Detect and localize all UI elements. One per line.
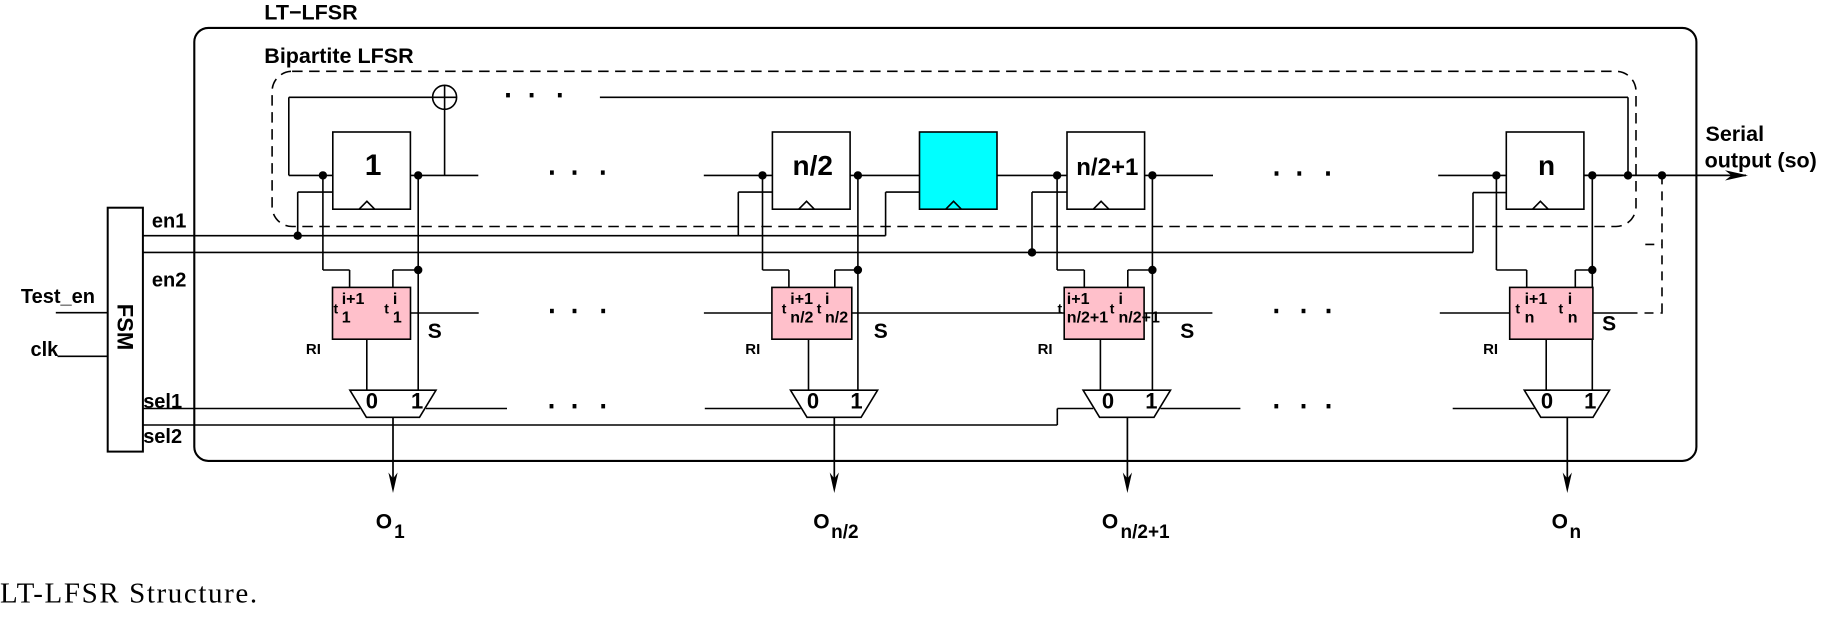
wire S-row segment col4 (1440, 312, 1510, 314)
XOR gate vertical input from FF1 output (444, 85, 446, 175)
svg-text:1: 1 (365, 149, 382, 182)
svg-text:FSM: FSM (113, 304, 138, 350)
junction col1 data output tap (414, 171, 422, 179)
svg-text:S: S (1602, 313, 1616, 336)
cyan hold cell box (920, 132, 998, 209)
junction col1 output riser at jog level (414, 266, 422, 274)
wire FF1 enable stub (298, 191, 333, 193)
svg-text:n: n (1570, 522, 1582, 543)
wire top feedback right drop to serial line (1627, 97, 1629, 175)
ellipsis data row left (550, 170, 554, 174)
svg-text:0: 0 (1102, 388, 1114, 413)
flip-flop n/2+1 box (1067, 132, 1145, 209)
RI cell tn/2+1 box (1064, 287, 1144, 339)
wire col3 FF-output riser to MUX 1-input (1151, 175, 1153, 390)
wire sel1 resume to MUX2 (705, 408, 801, 410)
wire sel2 resume to MUX4 (1453, 408, 1535, 410)
svg-text:0: 0 (807, 388, 819, 413)
wire col3 FF-input tap riser (1056, 175, 1058, 270)
wire clk input (58, 355, 108, 357)
junction col3 output riser at jog level (1148, 266, 1156, 274)
svg-text:en2: en2 (152, 269, 186, 291)
svg-text:1: 1 (393, 309, 402, 326)
wire cyan cell enable stub (886, 191, 920, 193)
junction dashed-feedback at serial line (1658, 171, 1666, 179)
junction col3 data input tap (1053, 171, 1061, 179)
svg-text:n: n (1525, 309, 1535, 326)
junction top-feedback at serial line (1624, 171, 1632, 179)
MUX col2 trapezoid (791, 390, 878, 417)
serial output arrowhead (1725, 170, 1748, 180)
wire left feedback vertical (288, 97, 290, 175)
junction col4 data input tap (1492, 171, 1500, 179)
svg-text:sel1: sel1 (143, 391, 182, 413)
svg-text:1: 1 (1145, 388, 1157, 413)
wire col4 RI-cell output to MUX 0-input (1545, 339, 1547, 390)
svg-text:RI: RI (1038, 341, 1053, 358)
wire FF n enable riser (1472, 193, 1474, 253)
wire col1 t(i+1) input jog (323, 269, 350, 271)
wire col4 t(i+1) input drop (1526, 270, 1528, 287)
svg-text:0: 0 (366, 388, 378, 413)
wire sel1 MUX1 to gap (426, 408, 507, 410)
Bipartite LFSR dashed enclosure (272, 71, 1636, 226)
svg-text:t: t (817, 300, 822, 316)
svg-text:i+1: i+1 (1067, 291, 1090, 308)
junction col3 data output tap (1148, 171, 1156, 179)
RI cell t1 box (333, 287, 411, 339)
svg-text:S: S (874, 320, 888, 343)
wire col1 t(i) input drop (392, 270, 394, 287)
dashed feedback vertical from serial output (1661, 175, 1663, 313)
svg-text:LT−LFSR: LT−LFSR (264, 1, 358, 25)
wire col1 FF-output riser to MUX 1-input (417, 175, 419, 390)
svg-text:n/2: n/2 (825, 309, 848, 326)
wire FF n input (1438, 174, 1506, 176)
svg-text:i+1: i+1 (1525, 291, 1548, 308)
svg-text:n/2+1: n/2+1 (1119, 309, 1160, 326)
svg-text:en1: en1 (152, 211, 186, 233)
MUX col1 output arrowhead (388, 473, 397, 494)
flip-flop n box (1506, 132, 1584, 209)
MUX col2 output arrowhead (830, 473, 839, 494)
wire col4 t(i+1) input jog (1496, 269, 1526, 271)
wire FF n/2 input (704, 174, 773, 176)
svg-text:i+1: i+1 (342, 291, 365, 308)
svg-text:n/2+1: n/2+1 (1067, 309, 1108, 326)
wire col4 t(i) input jog (1575, 269, 1592, 271)
wire col3 t(i+1) input drop (1083, 270, 1085, 287)
wire col4 t(i) input drop (1574, 270, 1576, 287)
junction col4 output riser at jog level (1588, 266, 1596, 274)
wire sel2 MUX3 exit (1160, 408, 1240, 410)
svg-text:RI: RI (306, 341, 321, 358)
wire col3 RI-cell output to MUX 0-input (1099, 339, 1101, 390)
wire MUX col4 output (1566, 417, 1568, 480)
wire col1 FF-input tap riser (322, 175, 324, 270)
wire en2 line (143, 251, 1473, 253)
wire FF n/2 output to cyan cell (850, 174, 919, 176)
svg-text:S: S (428, 320, 442, 343)
wire col2 t(i+1) input jog (763, 269, 789, 271)
wire FF1 enable riser (297, 192, 299, 236)
wire col2 t(i) input drop (834, 270, 836, 287)
junction col1 data input tap (319, 171, 327, 179)
svg-text:n/2+1: n/2+1 (1076, 154, 1138, 181)
svg-text:1: 1 (342, 309, 351, 326)
wire sel2 to MUX3 (1057, 408, 1093, 410)
RI cell tn box (1510, 287, 1593, 339)
wire cyan cell output to FF n/2+1 (997, 174, 1067, 176)
svg-text:n/2+1: n/2+1 (1121, 522, 1171, 543)
wire top feedback left segment (289, 96, 457, 98)
flip-flop n clock triangle (1533, 201, 1549, 209)
wire col1 RI-cell output to MUX 0-input (366, 339, 368, 390)
svg-text:i: i (393, 291, 397, 308)
RI cell tn/2 box (772, 287, 852, 339)
wire FF1 input (289, 174, 333, 176)
wire col3 t(i) input drop (1127, 270, 1129, 287)
svg-text:t: t (782, 300, 787, 316)
svg-text:n/2: n/2 (790, 309, 813, 326)
wire sel2 jog up (1056, 409, 1058, 426)
svg-text:Serial: Serial (1706, 122, 1765, 146)
wire col1 t(i+1) input drop (349, 270, 351, 287)
wire col3 t(i+1) input jog (1057, 269, 1084, 271)
svg-text:i: i (825, 291, 829, 308)
svg-text:t: t (334, 300, 339, 316)
wire en1 line (143, 235, 886, 237)
wire col4 FF-input tap riser (1495, 175, 1497, 270)
ellipsis mux row right (1274, 404, 1278, 408)
svg-text:RI: RI (1483, 341, 1498, 358)
wire col2 FF-input tap riser (762, 175, 764, 270)
svg-text:n/2: n/2 (831, 522, 858, 543)
svg-text:O: O (1102, 510, 1118, 533)
MUX col4 trapezoid (1524, 390, 1609, 417)
ellipsis top row (506, 93, 510, 97)
svg-text:t: t (1110, 300, 1115, 316)
MUX col1 trapezoid (350, 390, 436, 417)
wire col2 t(i+1) input drop (788, 270, 790, 287)
wire FF n/2 enable riser (737, 192, 739, 236)
junction col4 data output tap (1588, 171, 1596, 179)
wire col4 FF-output riser to MUX 1-input (1591, 175, 1593, 390)
wire MUX col2 output (833, 417, 835, 480)
svg-text:n: n (1568, 309, 1578, 326)
svg-text:i+1: i+1 (790, 291, 813, 308)
MUX col3 output arrowhead (1123, 473, 1132, 494)
wire col2 RI-cell output to MUX 0-input (808, 339, 810, 390)
wire col2 t(i) input jog (835, 269, 858, 271)
wire FF n/2+1 enable riser (1031, 192, 1033, 252)
flip-flop n/2 box (772, 132, 850, 209)
svg-text:1: 1 (1584, 388, 1596, 413)
wire FF n enable stub (1473, 192, 1506, 194)
svg-text:output (so): output (so) (1705, 149, 1817, 173)
svg-text:t: t (1559, 300, 1564, 316)
svg-text:n: n (1538, 150, 1555, 181)
junction col2 data input tap (758, 171, 766, 179)
svg-text:i: i (1568, 291, 1572, 308)
FSM box (108, 208, 143, 452)
svg-text:S: S (1180, 320, 1194, 343)
wire cyan cell enable riser (885, 192, 887, 236)
svg-text:O: O (1552, 510, 1568, 533)
wire FF n/2+1 enable stub (1032, 191, 1067, 193)
wire col3 t(i) input jog (1128, 269, 1153, 271)
ellipsis S row left (550, 309, 554, 313)
wire col2 FF-output riser to MUX 1-input (857, 175, 859, 390)
flip-flop n/2 clock triangle (799, 201, 815, 209)
cyan hold cell clock triangle (946, 201, 962, 209)
wire sel1 from FSM to MUX1 (143, 408, 360, 410)
svg-text:clk: clk (31, 339, 60, 361)
flip-flop n/2+1 clock triangle (1093, 201, 1109, 209)
wire S-row segment col1 (411, 312, 479, 314)
svg-text:RI: RI (745, 341, 760, 358)
MUX col4 output arrowhead (1563, 473, 1572, 494)
XOR gate circle (433, 85, 457, 109)
junction en2-FFn/2+1 (1028, 248, 1036, 256)
svg-text:n/2: n/2 (793, 150, 833, 181)
wire FF n/2+1 output (1145, 174, 1213, 176)
wire FF n/2 enable stub (738, 191, 772, 193)
wire FF n output / serial output line (1584, 174, 1746, 176)
wire col1 t(i) input jog (393, 269, 418, 271)
wire S-row col4 right stub (1593, 312, 1629, 314)
svg-text:1: 1 (850, 388, 862, 413)
outer LT-LFSR enclosure box (194, 28, 1696, 461)
svg-text:1: 1 (411, 388, 423, 413)
MUX col3 trapezoid (1083, 390, 1170, 417)
svg-text:O: O (813, 510, 829, 533)
svg-text:Test_en: Test_en (21, 286, 95, 308)
svg-text:i: i (1119, 291, 1123, 308)
svg-text:0: 0 (1541, 388, 1553, 413)
wire FF1 output (410, 174, 478, 176)
svg-text:LT-LFSR Structure.: LT-LFSR Structure. (0, 578, 259, 610)
svg-text:t: t (384, 300, 389, 316)
wire top feedback right segment (600, 96, 1628, 98)
junction en1-FF1 (294, 232, 302, 240)
dashed feedback horizontal to S input (1629, 312, 1663, 314)
svg-text:O: O (376, 510, 392, 533)
svg-text:1: 1 (394, 522, 405, 543)
wire sel2 from FSM (143, 424, 1057, 426)
wire Test_en input (56, 312, 108, 314)
ellipsis mux row left (550, 404, 554, 408)
wire S-row segment col2-col3 (704, 312, 1213, 314)
flip-flop 1 clock triangle (359, 201, 375, 209)
ellipsis data row right (1275, 171, 1279, 175)
svg-text:t: t (1515, 300, 1520, 316)
svg-text:sel2: sel2 (143, 426, 182, 448)
svg-text:Bipartite LFSR: Bipartite LFSR (264, 44, 414, 68)
dashed feedback stub (1645, 243, 1662, 245)
junction col2 data output tap (854, 171, 862, 179)
junction col2 output riser at jog level (854, 266, 862, 274)
flip-flop 1 box (333, 132, 411, 209)
ellipsis S row right (1274, 309, 1278, 313)
wire MUX col1 output (392, 417, 394, 480)
wire MUX col3 output (1126, 417, 1128, 480)
svg-text:t: t (1058, 300, 1063, 316)
